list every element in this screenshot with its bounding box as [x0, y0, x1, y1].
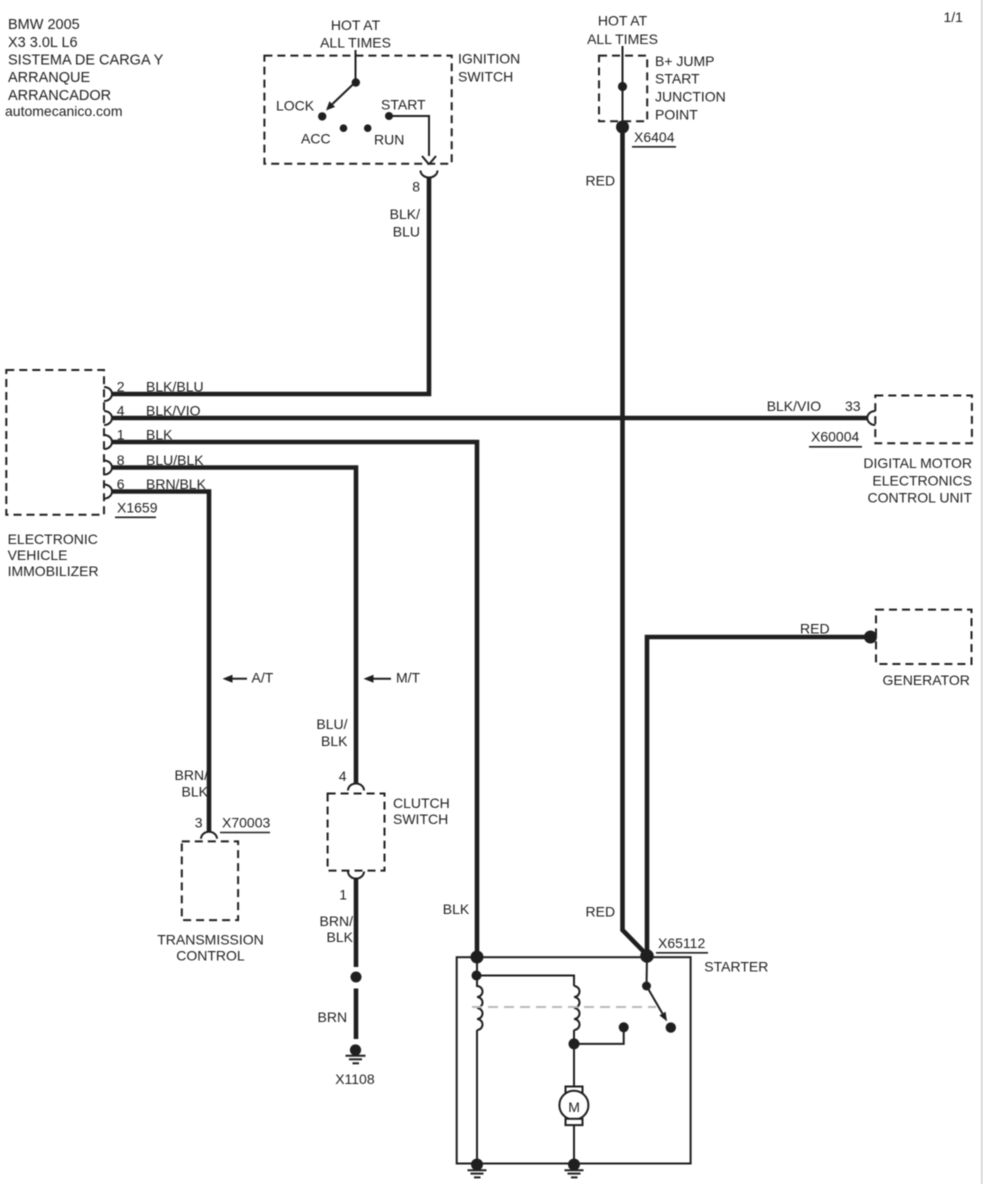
immobilizer pin 2 connector arc: [104, 387, 112, 401]
svg-text:ELECTRONICS: ELECTRONICS: [872, 472, 972, 488]
svg-text:ELECTRONIC: ELECTRONIC: [8, 531, 98, 547]
label DIGITAL MOTOR ELECTRONICS CONTROL UNIT: [863, 455, 972, 506]
svg-text:BLU: BLU: [393, 224, 420, 240]
svg-text:START: START: [381, 97, 426, 113]
B+ jump start junction point box: [599, 56, 647, 122]
ignition switch pivot dot: [352, 78, 360, 86]
svg-text:BLK/BLU: BLK/BLU: [146, 379, 204, 395]
svg-text:X1108: X1108: [335, 1071, 375, 1087]
svg-text:X65112: X65112: [658, 935, 705, 951]
DME pin 33 connector arc: [867, 411, 875, 425]
svg-text:X6404: X6404: [634, 129, 675, 145]
svg-text:RED: RED: [800, 620, 830, 636]
starter internal: hold-in coil to motor junction: [573, 1030, 575, 1090]
svg-text:RED: RED: [586, 173, 616, 189]
svg-text:ARRANCADOR: ARRANCADOR: [8, 88, 111, 104]
svg-text:CONTROL UNIT: CONTROL UNIT: [868, 490, 973, 506]
transmission control pin 3 connector arc: [201, 832, 217, 839]
svg-text:1/1: 1/1: [944, 9, 964, 25]
wire label BLU/BLK (M/T branch): [316, 716, 348, 749]
svg-text:2: 2: [117, 379, 125, 395]
wire label BRN/BLK (clutch to ground): [320, 913, 354, 945]
LOCK contact dot: [318, 112, 326, 120]
starter motor M: [559, 1087, 588, 1126]
starter box: [457, 957, 691, 1163]
svg-text:LOCK: LOCK: [276, 97, 315, 113]
title block: [5, 17, 164, 119]
svg-text:ALL TIMES: ALL TIMES: [587, 31, 658, 47]
starter internal: wire from BLK junction down to pull-in coil: [476, 957, 478, 987]
svg-text:HOT AT: HOT AT: [331, 17, 381, 33]
ground X1108: [346, 1044, 366, 1063]
solenoid switch feed from X65112: [646, 957, 649, 986]
contact dot: [619, 1022, 629, 1032]
svg-text:BLK: BLK: [321, 733, 348, 749]
immobilizer pin 1 connector arc: [104, 435, 112, 449]
svg-text:BRN/: BRN/: [320, 913, 354, 929]
wire from START contact to pin 8 with down arrow: [389, 116, 436, 164]
svg-text:JUNCTION: JUNCTION: [655, 89, 726, 105]
svg-text:RED: RED: [586, 904, 616, 920]
generator terminal dot: [864, 631, 877, 644]
wire generator to starter X65112: [647, 637, 868, 955]
solenoid switch blade with arrowhead: [647, 986, 668, 1021]
label X65112 underlined: [656, 935, 708, 953]
label CLUTCH SWITCH: [393, 795, 450, 827]
solenoid switch contact dot: [666, 1022, 676, 1032]
svg-text:DIGITAL MOTOR: DIGITAL MOTOR: [863, 455, 972, 471]
svg-text:SWITCH: SWITCH: [458, 68, 513, 84]
svg-text:BLU/: BLU/: [316, 716, 347, 732]
pull-in coil (left): [477, 986, 483, 1030]
svg-text:X60004: X60004: [811, 429, 859, 445]
svg-text:SISTEMA DE CARGA Y: SISTEMA DE CARGA Y: [8, 53, 164, 69]
svg-text:POINT: POINT: [655, 107, 698, 123]
immobilizer pin 4 connector arc: [104, 411, 112, 425]
svg-text:33: 33: [845, 398, 861, 414]
svg-text:SWITCH: SWITCH: [393, 811, 448, 827]
svg-text:X1659: X1659: [117, 499, 158, 515]
wire clutch pin 1 down to ground X1108: [354, 879, 359, 968]
ground (starter left): [468, 1159, 487, 1178]
svg-text:BLK/: BLK/: [390, 206, 420, 222]
START contact dot: [385, 112, 393, 120]
label X6404 underlined: [632, 129, 676, 147]
clutch switch box: [328, 794, 385, 871]
connector X6404 dot: [616, 121, 629, 134]
A/T arrow: [223, 669, 274, 685]
svg-text:B+ JUMP: B+ JUMP: [655, 53, 715, 69]
svg-text:4: 4: [339, 768, 347, 784]
ignition pin 8 connector cup: [421, 171, 438, 178]
generator box: [876, 610, 972, 664]
svg-text:IGNITION: IGNITION: [458, 50, 520, 66]
svg-text:M/T: M/T: [396, 669, 421, 685]
junction dot inside B+ box: [618, 82, 627, 91]
immobilizer pin 8 connector arc: [104, 461, 112, 475]
svg-text:BLK: BLK: [327, 929, 354, 945]
svg-text:X3 3.0L L6: X3 3.0L L6: [8, 35, 78, 51]
svg-text:BLK/VIO: BLK/VIO: [767, 398, 822, 414]
ignition switch label: [458, 50, 520, 84]
svg-text:TRANSMISSION: TRANSMISSION: [157, 932, 264, 948]
wire label BLK/BLU (ignition to immobilizer): [390, 206, 420, 239]
wire BRN/BLK immobilizer pin6 down to transmission control: [112, 492, 209, 832]
svg-text:BLK: BLK: [182, 783, 209, 799]
svg-text:CLUTCH: CLUTCH: [393, 795, 450, 811]
label B+ JUMP START JUNCTION POINT: [655, 53, 726, 123]
label X1659 underlined: [115, 499, 158, 517]
starter internal: contact stub: [574, 1027, 624, 1044]
junction dot BLK wire at starter: [471, 951, 484, 964]
svg-text:VEHICLE: VEHICLE: [8, 547, 68, 563]
hold-in coil (right): [574, 986, 580, 1030]
svg-text:IMMOBILIZER: IMMOBILIZER: [8, 563, 99, 579]
wire pin8 ignition down to immobilizer pin 2: [112, 178, 429, 395]
svg-text:BRN/: BRN/: [175, 767, 209, 783]
svg-text:A/T: A/T: [252, 669, 274, 685]
svg-text:BRN: BRN: [318, 1009, 348, 1025]
svg-text:ARRANQUE: ARRANQUE: [8, 70, 91, 86]
svg-text:CONTROL: CONTROL: [176, 948, 245, 964]
label HOT AT ALL TIMES (ignition feed): [320, 17, 391, 51]
svg-text:8: 8: [412, 178, 420, 194]
solenoid switch pivot dot: [642, 982, 651, 991]
ignition switch blade with arrowhead: [326, 82, 356, 111]
svg-text:1: 1: [339, 886, 347, 902]
RUN contact dot: [364, 124, 372, 132]
svg-text:HOT AT: HOT AT: [598, 13, 648, 29]
wire B+ junction down to starter X65112: [623, 127, 648, 955]
splice dot BRN/BLK to BRN: [351, 972, 362, 983]
wire label BRN/BLK (A/T branch): [175, 767, 209, 800]
wire from HOT AT into ignition switch: [355, 50, 357, 82]
svg-text:M: M: [568, 1099, 580, 1115]
svg-text:automecanico.com: automecanico.com: [5, 103, 123, 119]
label X70003 underlined: [220, 814, 270, 832]
wire BLK immobilizer pin1 down to starter: [112, 442, 477, 955]
starter internal: motor to ground wire: [573, 1125, 575, 1163]
ignition switch box: [264, 56, 451, 164]
immobilizer pin 6 connector arc: [104, 485, 112, 499]
svg-text:GENERATOR: GENERATOR: [883, 672, 970, 688]
junction dot at motor feed: [569, 1038, 580, 1049]
starter internal: left coil wire to ground: [476, 1030, 478, 1164]
svg-text:START: START: [655, 70, 700, 86]
wire BLU/BLK immobilizer pin8 down to clutch switch: [112, 468, 356, 784]
label ELECTRONIC VEHICLE IMMOBILIZER: [8, 531, 99, 579]
scan edge artifact line: [981, 0, 983, 1184]
wire through B+ junction box: [622, 46, 624, 122]
wire BLK/VIO immobilizer pin4 to DME pin 33: [112, 416, 868, 421]
svg-text:RUN: RUN: [374, 131, 404, 147]
electronic vehicle immobilizer box: [6, 370, 104, 515]
label TRANSMISSION CONTROL: [157, 932, 264, 964]
digital motor electronics control unit box: [875, 396, 972, 444]
svg-text:3: 3: [195, 814, 203, 830]
label X60004 underlined: [809, 429, 862, 447]
ACC contact dot: [340, 124, 348, 132]
svg-text:STARTER: STARTER: [704, 958, 768, 974]
svg-text:X70003: X70003: [222, 814, 270, 830]
starter internal: jumper to hold-in coil: [477, 976, 574, 987]
mechanical linkage dashed line: [472, 1006, 656, 1008]
transmission control box: [182, 841, 238, 920]
label HOT AT ALL TIMES (B+ feed): [587, 13, 658, 47]
svg-text:BMW 2005: BMW 2005: [8, 17, 80, 33]
M/T arrow: [364, 669, 421, 685]
svg-text:BLK: BLK: [443, 901, 470, 917]
svg-text:ALL TIMES: ALL TIMES: [320, 35, 391, 51]
ground (starter motor): [565, 1159, 584, 1178]
junction dot X65112: [640, 949, 654, 963]
svg-text:ACC: ACC: [301, 131, 331, 147]
clutch switch pin 4 connector arc: [348, 784, 364, 791]
clutch switch pin 1 connector arc: [348, 872, 364, 879]
junction dot coil tap: [472, 971, 482, 981]
